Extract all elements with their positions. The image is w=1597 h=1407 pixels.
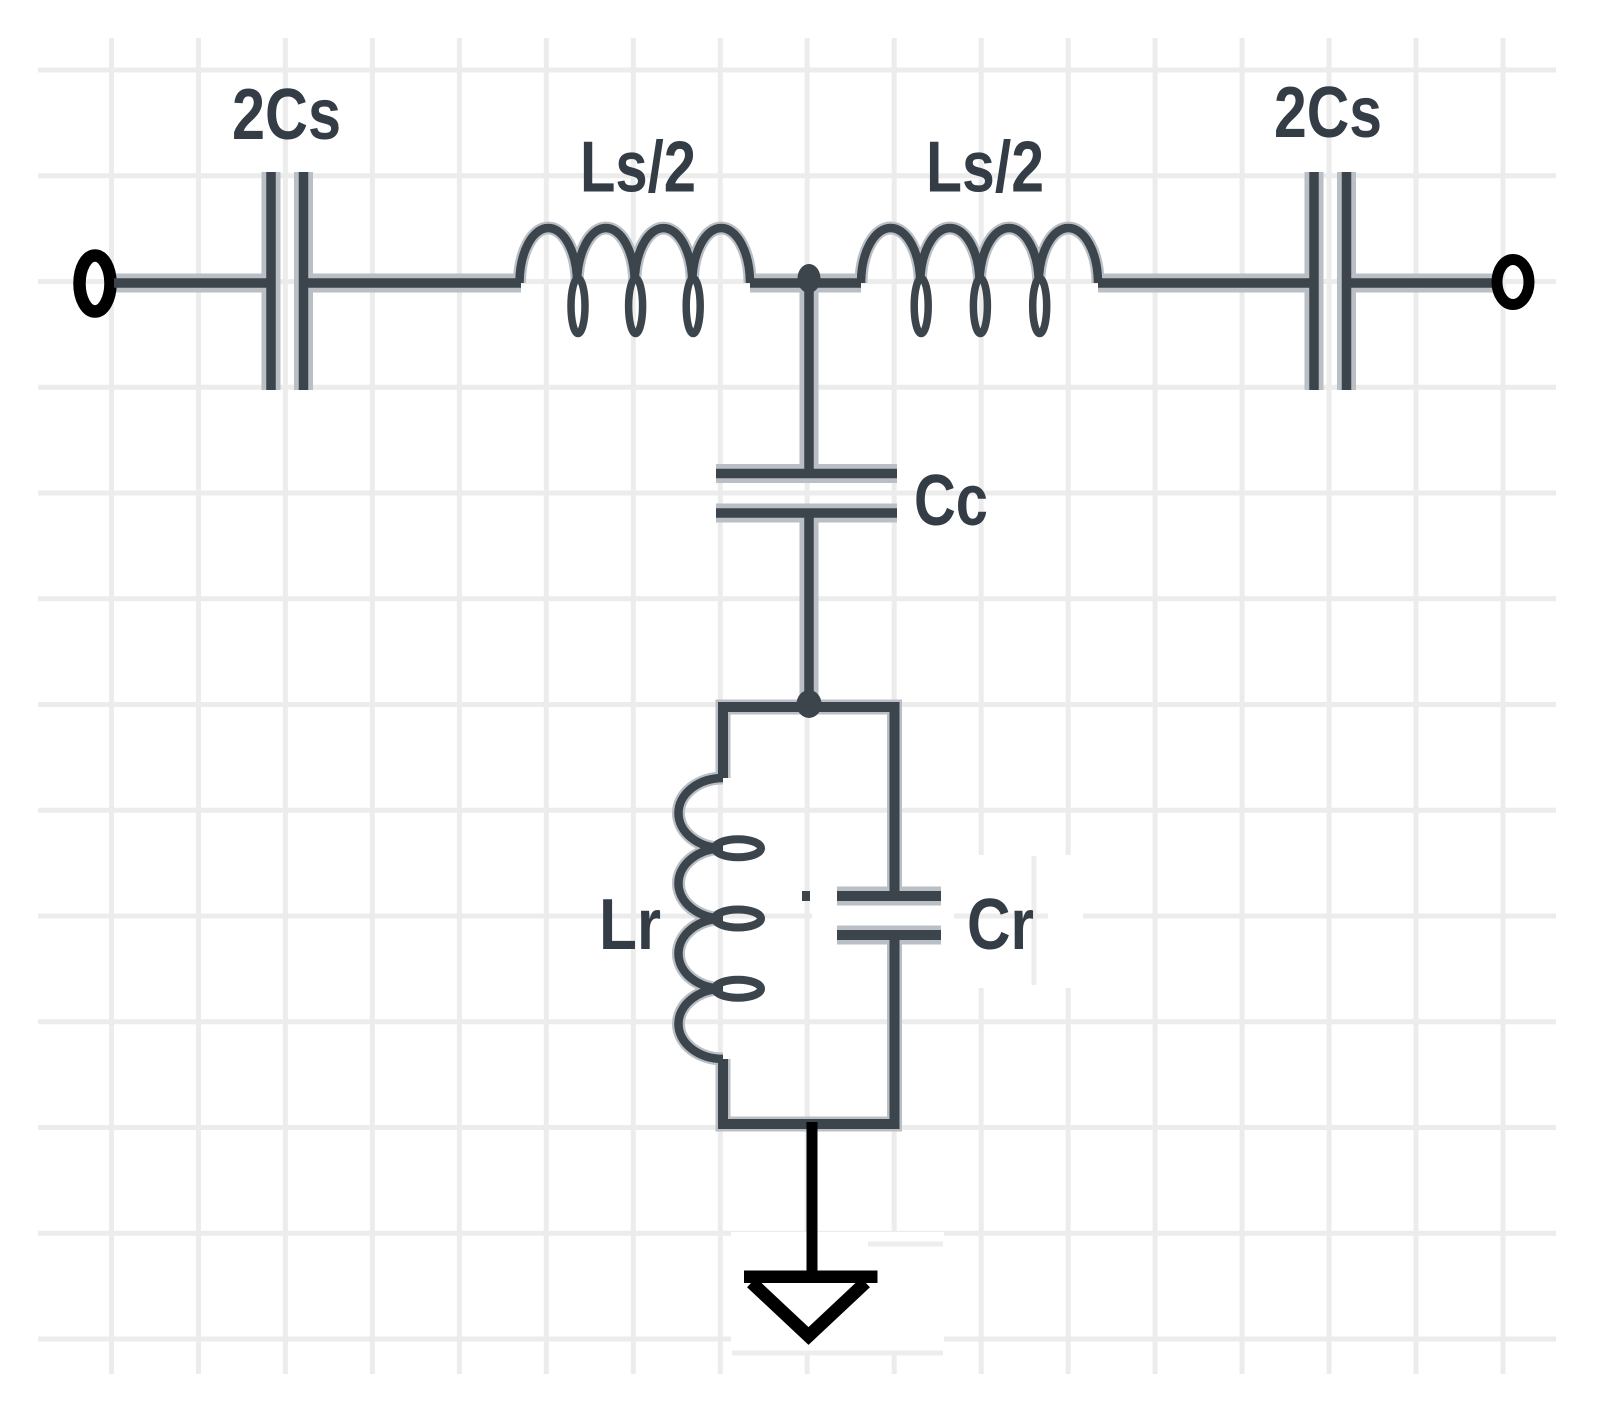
- svg-text:Cr: Cr: [967, 885, 1034, 965]
- svg-text:2Cs: 2Cs: [1274, 73, 1382, 153]
- svg-text:2Cs: 2Cs: [232, 75, 341, 155]
- svg-text:Lr: Lr: [599, 885, 661, 965]
- wire Cc to node B: [804, 516, 814, 705]
- left port terminal: [80, 256, 111, 312]
- label Cr: [967, 885, 1034, 965]
- inductor Ls/2 left: [520, 228, 751, 334]
- wire node A down to Cc: [804, 283, 814, 469]
- wire Ls/2 to 2Cs right: [1098, 278, 1311, 288]
- node A junction dot: [798, 264, 821, 293]
- inductor Lr: [678, 778, 761, 1059]
- label Ls/2 right: [926, 128, 1044, 208]
- label Ls/2 left: [580, 128, 696, 208]
- capacitor 2Cs left: [271, 172, 304, 390]
- inductor Ls/2 right: [861, 228, 1098, 334]
- label 2Cs right: [1274, 73, 1382, 153]
- ground: [744, 1271, 878, 1337]
- wire 2Cs to Ls/2: [308, 278, 521, 288]
- svg-text:Cc: Cc: [914, 461, 988, 541]
- capacitor Cc: [716, 474, 897, 514]
- tank loop wires (rectangle): [723, 707, 895, 1124]
- wire left port to 2Cs: [114, 278, 267, 288]
- svg-text:Ls/2: Ls/2: [580, 128, 696, 208]
- label 2Cs left: [232, 75, 341, 155]
- node B junction dot: [797, 690, 822, 718]
- label Lr: [599, 885, 661, 965]
- wire 2Cs to right port: [1351, 278, 1493, 288]
- label Cc: [914, 461, 988, 541]
- top plate remnant dash: [802, 891, 810, 901]
- capacitor 2Cs right: [1314, 172, 1347, 390]
- svg-text:Ls/2: Ls/2: [926, 128, 1044, 208]
- wire tank to ground: [807, 1122, 818, 1272]
- right port terminal: [1497, 260, 1529, 305]
- capacitor Cr: [837, 896, 941, 935]
- wire Ls/2 to node A: [750, 278, 861, 288]
